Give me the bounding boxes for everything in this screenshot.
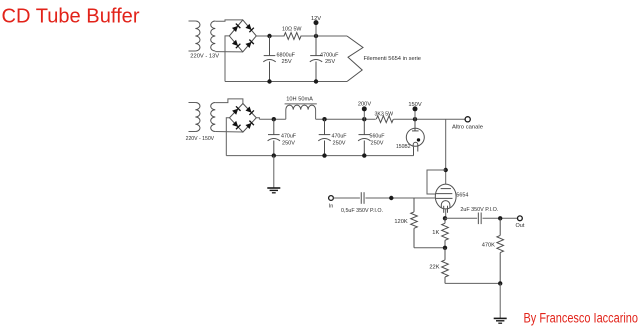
inductor L1 10H 50mA [285, 110, 287, 120]
wire B1 negative [225, 36, 229, 82]
node C2- [314, 79, 318, 83]
load: filaments zigzag [347, 36, 363, 82]
capacitor C5 560uF 250V [363, 119, 365, 134]
svg-text:4700uF: 4700uF [320, 53, 339, 59]
capacitor C4 470uF 250V [324, 119, 326, 134]
terminal In [329, 196, 334, 201]
svg-text:0,5uF 350V P.I.O.: 0,5uF 350V P.I.O. [341, 208, 383, 214]
svg-text:10H 50mA: 10H 50mA [286, 96, 313, 102]
wire T2 secondary bottom [215, 131, 243, 134]
svg-text:250V: 250V [371, 140, 384, 146]
wire B1 positive rail [256, 35, 284, 37]
terminal 200V [363, 110, 365, 119]
wire cathode lead [445, 209, 447, 219]
transformer T2 220V-150V [189, 102, 196, 104]
wire HT rail [259, 118, 285, 120]
voltage regulator tube V1 150B2 [414, 119, 416, 130]
node C1- [267, 79, 271, 83]
wire T1 secondary top to bridge [215, 20, 243, 21]
capacitor C1 6800uF 25V [269, 36, 271, 56]
svg-text:By Francesco Iaccarino: By Francesco Iaccarino [524, 311, 639, 326]
resistor R4 1K [444, 218, 446, 223]
node anode/screen junction [444, 168, 448, 172]
node C5- [362, 153, 366, 157]
svg-text:470uF: 470uF [332, 133, 347, 139]
svg-text:Altro canale: Altro canale [452, 124, 483, 130]
svg-text:Filementi 5654 in serie: Filementi 5654 in serie [364, 56, 422, 62]
ground (signal) [494, 317, 507, 319]
svg-text:220V - 13V: 220V - 13V [190, 54, 219, 60]
svg-text:560uF: 560uF [370, 133, 385, 139]
resistor R2 3K3 5W [376, 116, 393, 123]
wire 150V rail [394, 118, 468, 120]
wire B2 negative [226, 118, 229, 156]
node 150V junction [413, 117, 417, 121]
svg-text:CD Tube Buffer: CD Tube Buffer [2, 4, 140, 27]
svg-text:3K3 5W: 3K3 5W [375, 111, 394, 117]
wire rail after choke [316, 118, 376, 120]
capacitor C6 0.5uF 350V PIO [360, 192, 362, 204]
svg-text:200V: 200V [358, 101, 371, 107]
wire screen-grid strap [427, 170, 446, 194]
wire C6 to grid [365, 197, 435, 199]
wire to ground [499, 283, 501, 318]
resistor R3 120K [413, 198, 415, 212]
svg-text:6800uF: 6800uF [277, 53, 296, 59]
node C3+ [272, 117, 276, 121]
bridge rectifier B2 [230, 104, 257, 133]
svg-text:2uF 350V P.I.O.: 2uF 350V P.I.O. [460, 207, 498, 213]
svg-text:25V: 25V [325, 59, 335, 65]
bridge rectifier B1 [229, 20, 256, 52]
svg-text:10Ω 5W: 10Ω 5W [282, 27, 302, 33]
node 200V junction [362, 117, 366, 121]
capacitor C7 2uF 350V PIO [477, 213, 479, 225]
svg-text:5654: 5654 [456, 192, 468, 198]
transformer T1 220V-13V [189, 20, 196, 22]
node ground junction [498, 281, 502, 285]
svg-text:150B2: 150B2 [396, 144, 411, 150]
wire C7 to Out [483, 217, 518, 219]
wire T1 secondary bottom to bridge [215, 51, 243, 53]
resistor R5 22K [444, 248, 446, 260]
svg-text:220V - 150V: 220V - 150V [186, 136, 215, 142]
wire anode supply drop [445, 119, 447, 184]
wire bottom rail (HT) [226, 155, 413, 157]
terminal Out [518, 216, 523, 221]
wire bottom rail (filament supply) [225, 81, 347, 83]
node C3- [272, 153, 276, 157]
svg-text:470uF: 470uF [281, 133, 296, 139]
node C4- [322, 153, 326, 157]
node 12V junction [314, 34, 318, 38]
terminal Altro canale [465, 117, 470, 122]
svg-text:250V: 250V [282, 140, 295, 146]
svg-text:150V: 150V [408, 102, 421, 108]
svg-text:In: In [329, 204, 334, 210]
tube V2 5654 [435, 184, 456, 209]
wire to 12V node [301, 35, 348, 37]
node cathode [443, 216, 447, 220]
svg-text:25V: 25V [282, 59, 292, 65]
svg-text:120K: 120K [394, 219, 407, 225]
svg-text:250V: 250V [333, 140, 346, 146]
node grid wire dot [389, 196, 393, 200]
svg-text:12V: 12V [311, 16, 321, 22]
terminal 150V [414, 110, 416, 119]
wire cathode to C7 [445, 217, 477, 219]
node bias junction [443, 246, 447, 250]
svg-text:22K: 22K [429, 264, 439, 270]
wire T2 secondary top [215, 99, 243, 104]
node C1+ [267, 34, 271, 38]
ground (HT filter) [273, 156, 275, 188]
capacitor C3 470uF 250V [273, 119, 275, 134]
wire 22K to ground node [445, 282, 500, 284]
terminal 12V [315, 24, 317, 37]
svg-text:Out: Out [516, 223, 525, 229]
resistor R1 10 ohm 5W [284, 33, 301, 40]
wire In to C6 [333, 197, 360, 199]
resistor R6 470K [499, 218, 501, 235]
node C4+ [322, 117, 326, 121]
svg-text:1K: 1K [432, 230, 439, 236]
node output [498, 216, 502, 220]
capacitor C2 4700uF 25V [315, 36, 317, 56]
wire 120K to bias node [414, 247, 445, 249]
svg-text:470K: 470K [482, 242, 495, 248]
wire B2 positive [256, 118, 259, 119]
